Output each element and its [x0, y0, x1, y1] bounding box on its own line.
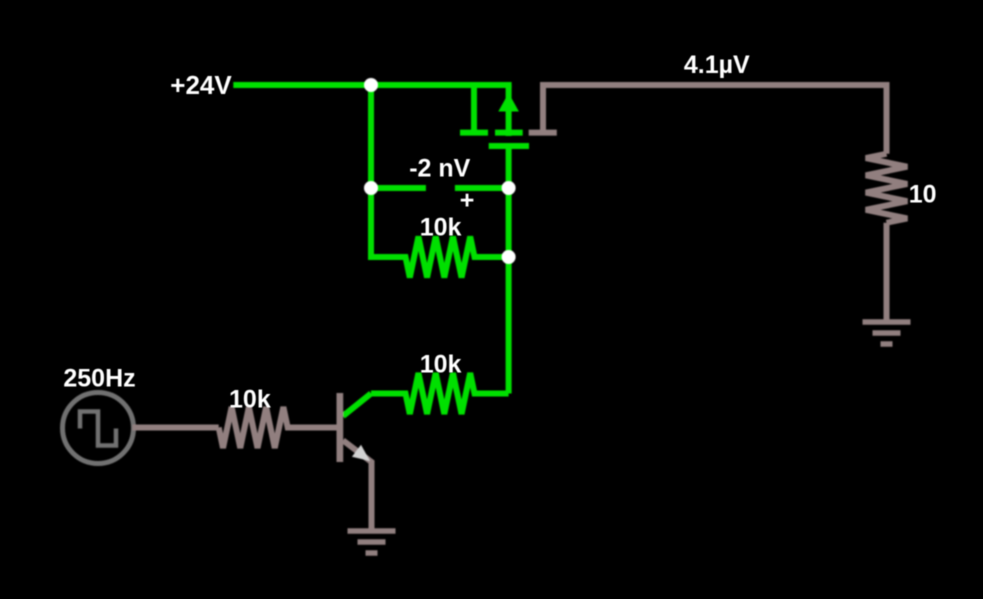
noise source V1 right stub — [455, 185, 509, 191]
wire +24V rail — [233, 82, 511, 88]
svg-text:-2 nV: -2 nV — [409, 154, 470, 182]
svg-text:250Hz: 250Hz — [63, 365, 135, 393]
svg-text:4.1µV: 4.1µV — [684, 51, 750, 79]
source V2 250Hz circle — [63, 393, 134, 464]
resistor R3 10k (base) — [219, 407, 339, 448]
mosfet M1 body lead — [506, 85, 512, 136]
svg-text:10: 10 — [909, 181, 937, 209]
wire resistor R4 to ground — [884, 223, 890, 322]
svg-text:10k: 10k — [420, 351, 462, 379]
node junction dot (509,257) — [502, 250, 516, 264]
transistor Q1 base bar — [337, 393, 344, 462]
wire drain to output resistor — [543, 85, 887, 154]
node A junction dot (371,85) — [364, 78, 378, 92]
resistor R1 10k (feedback) — [371, 188, 509, 278]
mosfet M1 drain contact bar — [529, 130, 557, 136]
node junction dot (371,188) — [364, 181, 378, 195]
node junction dot (509,188) — [502, 181, 516, 195]
mosfet M1 gate bar — [489, 143, 529, 149]
ground G2 — [863, 322, 911, 344]
wire from rail down to noise-source node — [368, 85, 374, 188]
mosfet M1 source lead — [471, 85, 477, 133]
resistor R2 10k (collector load) — [371, 373, 509, 414]
svg-text:+: + — [460, 186, 475, 214]
noise source V1 left stub — [371, 185, 426, 191]
ground G1 — [348, 531, 396, 553]
resistor R4 10 — [866, 154, 907, 223]
transistor Q1 emitter lead — [343, 440, 372, 528]
mosfet M1 gate lead — [506, 146, 512, 188]
mosfet M1 source contact bar — [460, 130, 488, 136]
transistor Q1 emitter arrow — [352, 445, 370, 461]
mosfet M1 mid channel bar — [495, 130, 523, 136]
source V2 square wave glyph — [80, 412, 116, 446]
svg-text:10k: 10k — [229, 386, 271, 414]
svg-text:10k: 10k — [420, 214, 462, 242]
wire source to resistor R3 — [133, 425, 219, 431]
wire node column — [506, 188, 512, 394]
mosfet M1 body arrow — [498, 93, 519, 112]
transistor Q1 collector lead — [343, 394, 371, 417]
svg-text:+24V: +24V — [170, 70, 232, 100]
